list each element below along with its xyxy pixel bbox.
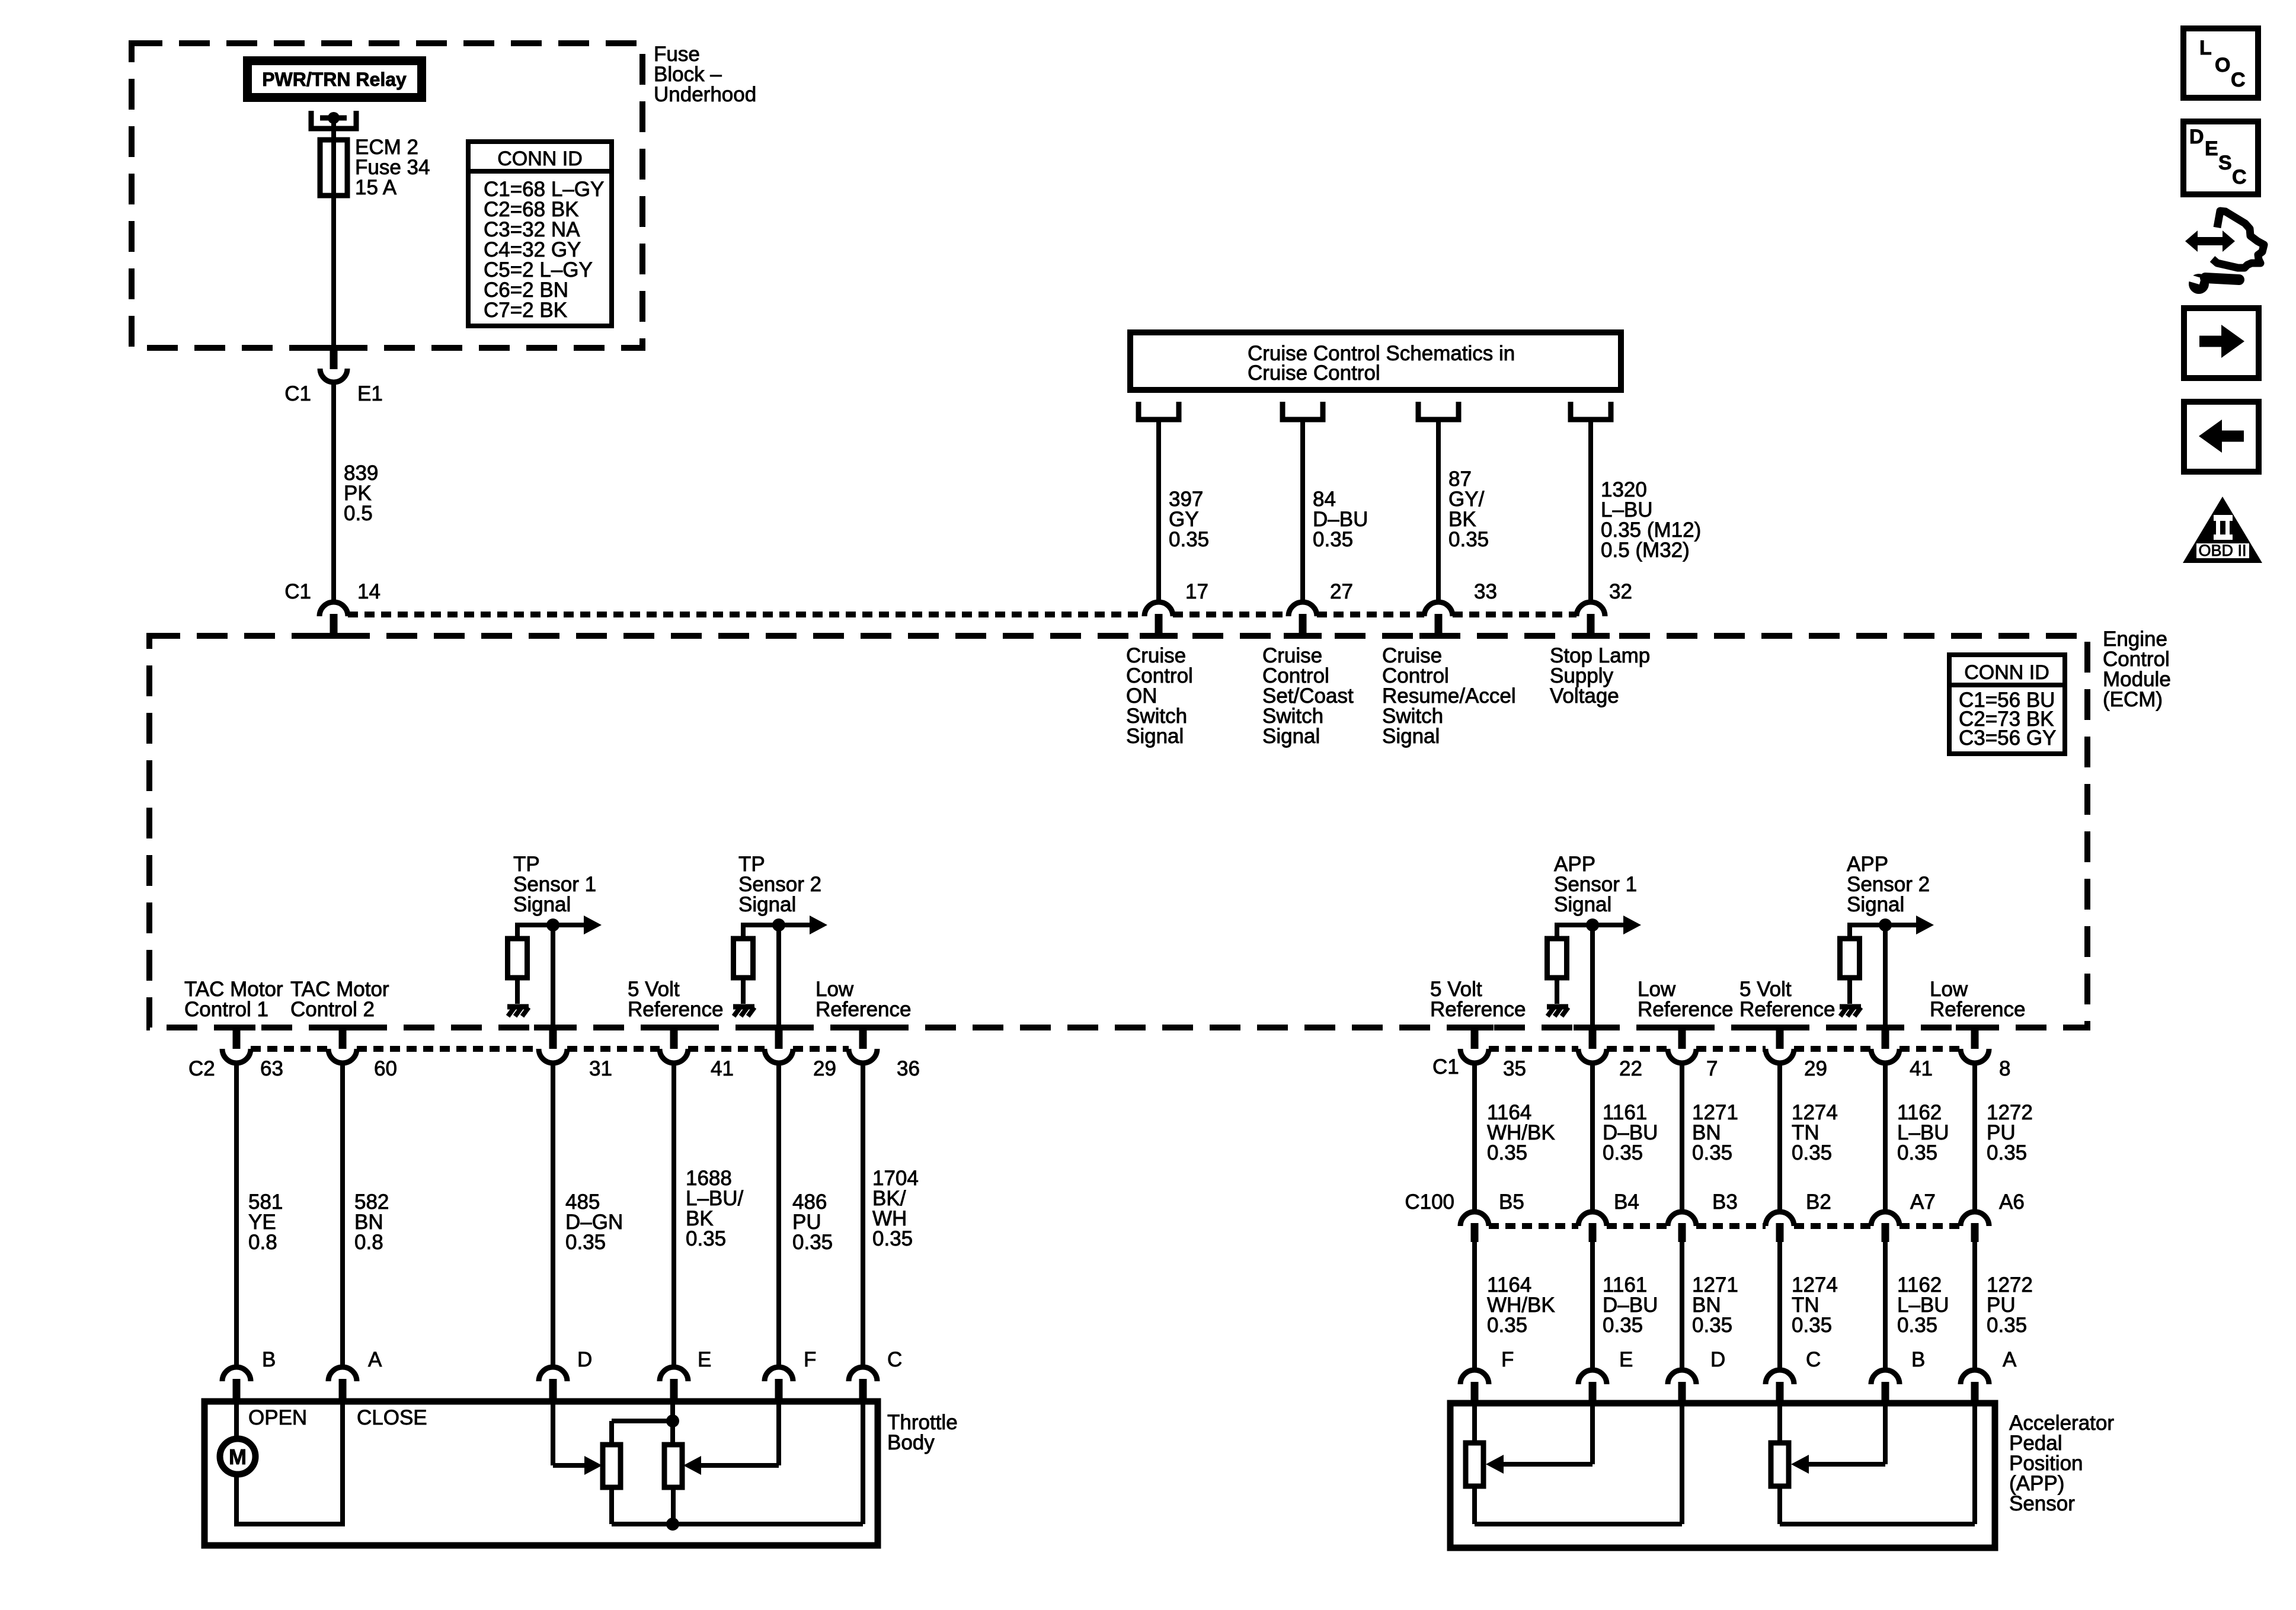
wire TP Sensor 1 Signal to pin bbox=[551, 925, 555, 1028]
CONN ID table (ECM) bbox=[1949, 655, 2065, 754]
ECM bottom pin 7 at x=2838 bbox=[1663, 1025, 1701, 1063]
svg-text:CONN ID: CONN ID bbox=[1964, 661, 2049, 684]
svg-text:7: 7 bbox=[1706, 1057, 1718, 1080]
wire at x=399 to throttle body bbox=[234, 1062, 239, 1368]
cruise drop bracket 2 bbox=[1283, 402, 1323, 420]
throttle body terminal B bbox=[222, 1367, 251, 1404]
svg-text:B3: B3 bbox=[1712, 1190, 1738, 1214]
wire cruise drop 4 bbox=[1588, 421, 1593, 602]
wire label 486 PU 0.35 bbox=[792, 1190, 833, 1254]
wire at x=2838 ECM to C100 bbox=[1680, 1062, 1684, 1213]
svg-text:C: C bbox=[887, 1348, 902, 1371]
wire label 1162 L–BU 0.35 (upper) bbox=[1897, 1101, 1949, 1164]
wire motor to close leg bbox=[234, 1401, 345, 1526]
label Low Reference (pin 36 left) bbox=[816, 978, 911, 1021]
wire at x=2687 ECM to C100 bbox=[1590, 1062, 1595, 1213]
label Stop Lamp Supply Voltage bbox=[1550, 644, 1650, 708]
cruise control schematics box bbox=[1130, 332, 1621, 390]
label TP Sensor 1 Signal bbox=[513, 853, 596, 916]
ECM bottom pin 31 at x=933 bbox=[534, 1025, 572, 1063]
svg-text:Control 2: Control 2 bbox=[290, 998, 375, 1021]
svg-text:Reference: Reference bbox=[1739, 998, 1835, 1021]
svg-text:Signal: Signal bbox=[1554, 893, 1611, 916]
icon LOC bbox=[2183, 28, 2258, 98]
svg-text:E1: E1 bbox=[357, 382, 383, 405]
svg-text:B: B bbox=[1911, 1348, 1925, 1371]
C100 pin B4 bbox=[1578, 1212, 1607, 1242]
wire at x=1314 to throttle body bbox=[776, 1062, 781, 1368]
svg-text:Reference: Reference bbox=[816, 998, 911, 1021]
svg-text:33: 33 bbox=[1474, 580, 1497, 603]
wire at x=3332 ECM to C100 bbox=[1972, 1062, 1977, 1213]
wire label 582 BN 0.8 bbox=[354, 1190, 389, 1254]
wire at x=2838 C100 to APP sensor bbox=[1680, 1242, 1684, 1371]
label Cruise Control Set/Coast Switch Signal bbox=[1262, 644, 1354, 748]
svg-text:S: S bbox=[2218, 152, 2232, 174]
wire label 397 GY 0.35 bbox=[1169, 488, 1209, 551]
wire B wiper arrow (APP2) bbox=[1791, 1403, 1885, 1474]
label Cruise Control ON Switch Signal bbox=[1126, 644, 1193, 748]
connector C100 line (fine dashed) bbox=[1489, 1223, 1578, 1229]
ECM Engine Control Module dashed box bbox=[149, 636, 2087, 1028]
label Fuse Block Underhood bbox=[654, 43, 756, 106]
svg-text:A7: A7 bbox=[1910, 1190, 1936, 1214]
APP sensor terminal B bbox=[1871, 1370, 1900, 1406]
label 5 Volt Reference (pin 29 right) bbox=[1739, 978, 1835, 1021]
svg-text:Control 1: Control 1 bbox=[184, 998, 268, 1021]
svg-text:29: 29 bbox=[813, 1057, 836, 1080]
wire label 1704 BK/WH 0.35 bbox=[872, 1167, 919, 1250]
wire F wiper arrow bbox=[683, 1401, 779, 1475]
CONN ID table (fuse block) bbox=[468, 142, 612, 326]
throttle body terminal A bbox=[328, 1367, 357, 1404]
label Throttle Body bbox=[887, 1411, 958, 1454]
APP sensor terminal A bbox=[1961, 1370, 1989, 1406]
wire label 1161 D–BU 0.35 (lower) bbox=[1603, 1273, 1658, 1337]
svg-text:A: A bbox=[2003, 1348, 2017, 1371]
svg-text:0.35: 0.35 bbox=[1487, 1141, 1527, 1164]
svg-text:O: O bbox=[2215, 54, 2230, 76]
svg-text:F: F bbox=[1501, 1348, 1514, 1371]
wire label 87 GY/BK 0.35 bbox=[1448, 468, 1489, 551]
C100 pin A6 bbox=[1961, 1212, 1989, 1242]
icon forward arrow box bbox=[2184, 308, 2259, 378]
wire APP1 bottom to D bbox=[1475, 1403, 1682, 1524]
cruise drop bracket 4 bbox=[1571, 402, 1611, 420]
svg-text:0.35: 0.35 bbox=[1692, 1141, 1732, 1164]
C100 pin A7 bbox=[1871, 1212, 1900, 1242]
wire at x=933 to throttle body bbox=[551, 1062, 555, 1368]
ECM bottom pin 29 at x=3003 bbox=[1761, 1025, 1799, 1063]
svg-text:Signal: Signal bbox=[1382, 725, 1440, 748]
fuse F34 ECM 2 15A bbox=[320, 140, 347, 196]
wire label 581 YE 0.8 bbox=[248, 1190, 283, 1254]
svg-text:0.5: 0.5 bbox=[344, 502, 373, 525]
ECM bottom pin 8 at x=3332 bbox=[1956, 1025, 1994, 1063]
svg-text:Reference: Reference bbox=[628, 998, 723, 1021]
APP sensor terminal D bbox=[1668, 1370, 1696, 1406]
svg-text:L: L bbox=[2199, 37, 2212, 59]
svg-text:41: 41 bbox=[711, 1057, 734, 1080]
wire label 1320 L-BU 0.35 (M12) 0.5 (M32) bbox=[1601, 478, 1701, 562]
icon DESC bbox=[2183, 121, 2258, 194]
svg-text:0.35: 0.35 bbox=[792, 1231, 833, 1254]
C100 pin B2 bbox=[1766, 1212, 1794, 1242]
cruise drop bracket 1 bbox=[1139, 402, 1179, 420]
svg-text:B: B bbox=[262, 1348, 276, 1371]
ECM bottom pin 63 at x=399 bbox=[218, 1025, 255, 1063]
APP Sensor 2 Signal pull-up network bbox=[1840, 916, 1934, 1016]
wire E to pot tops with junction bbox=[612, 1401, 679, 1445]
ECM bottom pin 60 at x=578 bbox=[324, 1025, 362, 1063]
svg-text:0.8: 0.8 bbox=[248, 1231, 277, 1254]
label Cruise Control Resume/Accel Switch Signal bbox=[1382, 644, 1516, 748]
TAC motor M bbox=[220, 1401, 255, 1474]
TP sensor potentiometer 1 bbox=[603, 1445, 621, 1487]
svg-text:0.35: 0.35 bbox=[686, 1227, 726, 1250]
svg-text:0.35: 0.35 bbox=[1448, 528, 1489, 551]
svg-text:0.35: 0.35 bbox=[1987, 1314, 2027, 1337]
label 5 Volt Reference (pin 41 left) bbox=[628, 978, 723, 1021]
svg-text:C1: C1 bbox=[284, 580, 311, 603]
svg-text:B5: B5 bbox=[1499, 1190, 1524, 1214]
svg-text:60: 60 bbox=[374, 1057, 397, 1080]
APP potentiometer 1 bbox=[1466, 1403, 1483, 1486]
svg-text:C2: C2 bbox=[188, 1057, 215, 1080]
fuse block underhood dashed box bbox=[132, 43, 642, 348]
svg-text:D: D bbox=[577, 1348, 592, 1371]
svg-text:0.35: 0.35 bbox=[1313, 528, 1353, 551]
svg-text:B2: B2 bbox=[1806, 1190, 1831, 1214]
connector C1/E1 pin bbox=[315, 345, 353, 382]
wire label 1164 WH/BK 0.35 (upper) bbox=[1487, 1101, 1555, 1164]
svg-text:E: E bbox=[698, 1348, 711, 1371]
svg-text:Reference: Reference bbox=[1930, 998, 2025, 1021]
throttle body terminal C bbox=[849, 1367, 877, 1404]
svg-text:C1: C1 bbox=[284, 382, 311, 405]
svg-text:E: E bbox=[1619, 1348, 1633, 1371]
svg-text:Signal: Signal bbox=[513, 893, 571, 916]
icon vehicle diagnostic (car, double arrow, wrench) bbox=[2185, 211, 2264, 294]
connector line C2 (ECM bottom left, fine dashed) bbox=[251, 1046, 328, 1052]
svg-text:CONN ID: CONN ID bbox=[497, 148, 583, 170]
wire label 485 D-GN 0.35 bbox=[565, 1190, 623, 1254]
svg-text:M: M bbox=[229, 1445, 247, 1469]
svg-text:OBD II: OBD II bbox=[2198, 542, 2246, 559]
svg-text:(ECM): (ECM) bbox=[2103, 688, 2163, 711]
svg-text:17: 17 bbox=[1185, 580, 1208, 603]
wire label 84 D-BU 0.35 bbox=[1313, 488, 1368, 551]
throttle body box bbox=[204, 1401, 878, 1545]
label APP Sensor 1 Signal bbox=[1554, 853, 1637, 916]
ECM bottom pin 22 at x=2687 bbox=[1574, 1025, 1611, 1063]
label APP Sensor 2 Signal bbox=[1847, 853, 1930, 916]
connector line C1 (ECM top, fine dashed) bbox=[348, 612, 1144, 617]
wire at x=2488 C100 to APP sensor bbox=[1472, 1242, 1477, 1371]
svg-text:0.35: 0.35 bbox=[872, 1227, 913, 1250]
ECM pin 14 (top) bbox=[315, 602, 353, 639]
label TAC Motor Control 1 bbox=[184, 978, 283, 1021]
svg-text:0.35: 0.35 bbox=[1897, 1141, 1937, 1164]
svg-text:B4: B4 bbox=[1614, 1190, 1639, 1214]
ECM bottom pin 36 at x=1456 bbox=[844, 1025, 882, 1063]
wire at x=2687 C100 to APP sensor bbox=[1590, 1242, 1595, 1371]
svg-text:Reference: Reference bbox=[1430, 998, 1526, 1021]
throttle body terminal D bbox=[539, 1367, 567, 1404]
connector line C1 (ECM bottom right, fine dashed) bbox=[1489, 1046, 1578, 1052]
label Low Reference (pin 7) bbox=[1638, 978, 1733, 1021]
C100 pin B3 bbox=[1668, 1212, 1696, 1242]
svg-text:C: C bbox=[2231, 69, 2246, 91]
svg-text:Body: Body bbox=[887, 1431, 935, 1454]
svg-text:Signal: Signal bbox=[1262, 725, 1320, 748]
APP sensor terminal E bbox=[1578, 1370, 1607, 1406]
svg-text:A: A bbox=[368, 1348, 382, 1371]
svg-text:F: F bbox=[804, 1348, 816, 1371]
svg-text:Cruise Control: Cruise Control bbox=[1248, 361, 1380, 385]
wire at x=2488 ECM to C100 bbox=[1472, 1062, 1477, 1213]
ECM bottom pin 41 at x=3181 bbox=[1866, 1025, 1904, 1063]
svg-text:C100: C100 bbox=[1405, 1190, 1454, 1214]
APP potentiometer 2 bbox=[1771, 1403, 1789, 1486]
svg-text:29: 29 bbox=[1804, 1057, 1827, 1080]
svg-text:36: 36 bbox=[897, 1057, 920, 1080]
ECM pin 17 (top) bbox=[1140, 602, 1178, 639]
svg-text:22: 22 bbox=[1619, 1057, 1642, 1080]
svg-text:41: 41 bbox=[1910, 1057, 1933, 1080]
ECM pin 33 (top) bbox=[1419, 602, 1457, 639]
wire APP Sensor 1 Signal to pin bbox=[1590, 925, 1595, 1028]
svg-text:32: 32 bbox=[1609, 580, 1632, 603]
svg-text:PWR/TRN Relay: PWR/TRN Relay bbox=[262, 69, 407, 90]
ECM pin 27 (top) bbox=[1284, 602, 1322, 639]
wire label 1161 D–BU 0.35 (upper) bbox=[1603, 1101, 1658, 1164]
svg-text:C: C bbox=[2232, 166, 2247, 188]
svg-text:63: 63 bbox=[260, 1057, 283, 1080]
wire label 1688 L-BU/BK 0.35 bbox=[686, 1167, 744, 1250]
svg-text:Signal: Signal bbox=[738, 893, 796, 916]
svg-text:31: 31 bbox=[589, 1057, 612, 1080]
wire at x=3003 C100 to APP sensor bbox=[1777, 1242, 1782, 1371]
wire APP2 bottom to A bbox=[1780, 1403, 1975, 1524]
label Engine Control Module (ECM) bbox=[2103, 628, 2171, 711]
svg-text:0.35: 0.35 bbox=[1603, 1141, 1643, 1164]
label TAC Motor Control 2 bbox=[290, 978, 389, 1021]
cruise drop bracket 3 bbox=[1418, 402, 1459, 420]
svg-text:8: 8 bbox=[1999, 1057, 2010, 1080]
wire label 1272 PU 0.35 (lower) bbox=[1987, 1273, 2033, 1337]
relay contact symbol bbox=[311, 111, 356, 129]
svg-text:0.35: 0.35 bbox=[1603, 1314, 1643, 1337]
svg-text:0.35: 0.35 bbox=[1487, 1314, 1527, 1337]
wire label 1164 WH/BK 0.35 (lower) bbox=[1487, 1273, 1555, 1337]
svg-text:35: 35 bbox=[1503, 1057, 1526, 1080]
accelerator pedal position sensor box bbox=[1450, 1403, 1995, 1548]
wire label 1274 TN 0.35 (upper) bbox=[1792, 1101, 1838, 1164]
wire at x=3332 C100 to APP sensor bbox=[1972, 1242, 1977, 1371]
svg-text:Voltage: Voltage bbox=[1550, 684, 1619, 708]
icon back arrow box bbox=[2184, 402, 2259, 472]
svg-text:0.8: 0.8 bbox=[354, 1231, 383, 1254]
label 5 Volt Reference (pin 35) bbox=[1430, 978, 1526, 1021]
svg-text:D: D bbox=[1710, 1348, 1725, 1371]
svg-text:14: 14 bbox=[357, 580, 380, 603]
svg-text:C1: C1 bbox=[1432, 1055, 1459, 1078]
wire E wiper arrow (APP1) bbox=[1486, 1403, 1593, 1474]
svg-text:C: C bbox=[1806, 1348, 1821, 1371]
svg-text:Sensor: Sensor bbox=[2009, 1492, 2075, 1515]
wire TP Sensor 2 Signal to pin bbox=[776, 925, 781, 1028]
ECM pin 32 (top) bbox=[1572, 602, 1610, 639]
svg-text:0.35: 0.35 bbox=[1692, 1314, 1732, 1337]
wire label 839 PK 0.5 bbox=[344, 462, 378, 525]
wire cruise drop 2 bbox=[1300, 421, 1305, 602]
wire cruise drop 3 bbox=[1436, 421, 1441, 602]
svg-text:Signal: Signal bbox=[1126, 725, 1184, 748]
wire APP Sensor 2 Signal to pin bbox=[1883, 925, 1888, 1028]
wire at x=3181 ECM to C100 bbox=[1883, 1062, 1888, 1213]
ECM bottom pin 35 at x=2488 bbox=[1456, 1025, 1494, 1063]
svg-text:0.35: 0.35 bbox=[1792, 1314, 1832, 1337]
wire label 1274 TN 0.35 (lower) bbox=[1792, 1273, 1838, 1337]
svg-text:C3=56 GY: C3=56 GY bbox=[1959, 726, 2056, 750]
ECM bottom pin 29 at x=1314 bbox=[760, 1025, 798, 1063]
wire at x=1456 to throttle body bbox=[861, 1062, 865, 1368]
label Low Reference (pin 8) bbox=[1930, 978, 2025, 1021]
ECM bottom pin 41 at x=1137 bbox=[655, 1025, 693, 1063]
APP sensor terminal C bbox=[1766, 1370, 1794, 1406]
throttle body terminal F bbox=[765, 1367, 793, 1404]
fuse label ECM 2 Fuse 34 15 A bbox=[355, 136, 430, 199]
svg-text:0.35: 0.35 bbox=[1987, 1141, 2027, 1164]
svg-text:0.35: 0.35 bbox=[565, 1231, 606, 1254]
wire at x=578 to throttle body bbox=[340, 1062, 345, 1368]
wire relay to fuse bbox=[331, 118, 336, 349]
wire cruise drop 1 bbox=[1156, 421, 1161, 602]
throttle body terminal E bbox=[660, 1367, 688, 1404]
svg-text:0.35: 0.35 bbox=[1169, 528, 1209, 551]
svg-text:C7=2 BK: C7=2 BK bbox=[484, 299, 567, 322]
APP Sensor 1 Signal pull-up network bbox=[1547, 916, 1641, 1016]
wire D wiper arrow bbox=[553, 1401, 602, 1475]
relay K1 PWR/TRN Relay title box bbox=[243, 56, 426, 102]
icon OBD II triangle bbox=[2183, 497, 2262, 563]
TP sensor potentiometer 2 bbox=[664, 1445, 682, 1487]
wire at x=3181 C100 to APP sensor bbox=[1883, 1242, 1888, 1371]
svg-text:Signal: Signal bbox=[1847, 893, 1904, 916]
wire label 1272 PU 0.35 (upper) bbox=[1987, 1101, 2033, 1164]
svg-text:A6: A6 bbox=[1999, 1190, 2025, 1214]
svg-text:27: 27 bbox=[1330, 580, 1353, 603]
svg-text:15 A: 15 A bbox=[355, 176, 397, 199]
wire at x=3003 ECM to C100 bbox=[1777, 1062, 1782, 1213]
svg-text:0.35: 0.35 bbox=[1792, 1141, 1832, 1164]
svg-text:E: E bbox=[2205, 137, 2218, 160]
wire label 1271 BN 0.35 (lower) bbox=[1692, 1273, 1738, 1337]
wire at x=1137 to throttle body bbox=[671, 1062, 676, 1368]
svg-text:CLOSE: CLOSE bbox=[357, 1406, 427, 1429]
C100 pin B5 bbox=[1460, 1212, 1489, 1242]
label Accelerator Pedal Position (APP) Sensor bbox=[2009, 1411, 2114, 1515]
svg-text:Reference: Reference bbox=[1638, 998, 1733, 1021]
APP sensor terminal F bbox=[1460, 1370, 1489, 1406]
svg-text:0.5 (M32): 0.5 (M32) bbox=[1601, 539, 1690, 562]
wire label 1162 L–BU 0.35 (lower) bbox=[1897, 1273, 1949, 1337]
svg-text:D: D bbox=[2189, 126, 2204, 148]
wire label 1271 BN 0.35 (upper) bbox=[1692, 1101, 1738, 1164]
svg-text:0.35: 0.35 bbox=[1897, 1314, 1937, 1337]
wire 839 PK to ECM pin 14 bbox=[331, 382, 336, 602]
TP Sensor 2 Signal pull-up network bbox=[733, 916, 827, 1016]
label TP Sensor 2 Signal bbox=[738, 853, 821, 916]
svg-text:OPEN: OPEN bbox=[248, 1406, 307, 1429]
wire pot bottoms to C with junction bbox=[612, 1401, 863, 1531]
TP Sensor 1 Signal pull-up network bbox=[507, 916, 602, 1016]
svg-text:Underhood: Underhood bbox=[654, 83, 756, 106]
